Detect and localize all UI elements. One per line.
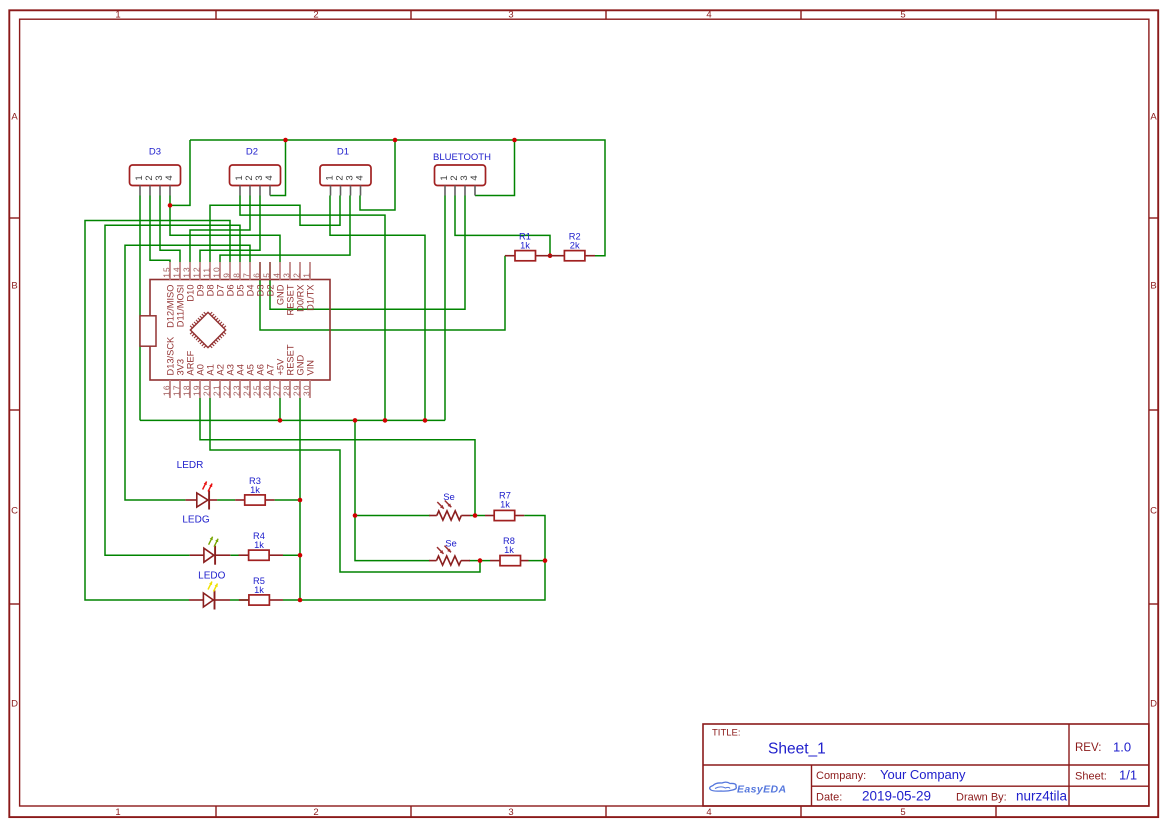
junction bus-BT [512,138,517,143]
svg-text:23: 23 [232,384,242,396]
wire D3 pin4 to node [170,196,280,263]
svg-text:5: 5 [900,10,905,21]
U1 pin 12 D9 [199,262,201,280]
junction +5V rail D2pin1 [383,418,388,423]
svg-text:BLUETOOTH: BLUETOOTH [433,152,491,163]
wire D3 pin1 down [139,196,141,421]
svg-text:28: 28 [282,384,292,396]
wire BLUETOOTH pin3 to U1 pin5 [270,196,465,310]
wire U1 pin7 to LEDR rail [125,245,250,500]
svg-text:Se: Se [445,539,457,550]
junction R5 GND [298,598,303,603]
U1 pin 4 GND [279,262,281,280]
U1 pin 2 D0/RX [299,262,301,280]
svg-text:26: 26 [262,384,272,396]
svg-text:A: A [1150,112,1157,123]
wire R3 to GND column [275,499,300,501]
U1 pin 9 D6 [229,262,231,280]
wire D3 pin2 to U1 pin15 [150,196,170,263]
svg-text:Se: Se [443,492,455,503]
junction bus-D2 [283,138,288,143]
svg-text:D7: D7 [215,285,225,297]
wire D2 pin4 to bus [270,140,286,196]
junction D3 pin4 node [168,203,173,208]
svg-text:D1: D1 [337,147,349,158]
svg-text:D: D [1150,699,1157,710]
svg-text:29: 29 [292,384,302,396]
svg-text:LEDG: LEDG [182,515,209,526]
wire LEDR to R3 segment [217,499,235,501]
wire D1 pin4 to bus [360,140,395,210]
U1 pin 28 RESET [289,380,291,398]
svg-text:13: 13 [182,266,192,278]
wire U1 pin20 A1 to Se2 node [210,398,480,572]
wire Se1 node segment [470,515,485,517]
svg-text:D0/RX: D0/RX [295,285,305,312]
resistor R3 1k [235,476,275,505]
svg-text:1/1: 1/1 [1119,768,1137,783]
svg-text:D6: D6 [225,285,235,297]
U1 pin 27 +5V [279,380,281,398]
wire R8 right segment [529,560,546,562]
wire U1 pin29 GND down [299,398,301,600]
svg-text:5: 5 [900,807,905,818]
svg-text:4: 4 [272,272,282,278]
svg-text:10: 10 [212,266,222,278]
resistor R8 1k [490,536,529,566]
svg-text:2019-05-29: 2019-05-29 [862,789,931,804]
svg-text:D10: D10 [185,285,195,302]
svg-text:D8: D8 [205,285,215,297]
U1 pin 5 D2 [269,262,271,280]
svg-text:17: 17 [172,384,182,396]
svg-text:+5V: +5V [275,358,285,376]
svg-text:Company:: Company: [816,770,866,782]
U1 pin 26 A7 [269,380,271,398]
resistor R5 1k [239,576,283,605]
svg-text:4: 4 [706,10,711,21]
svg-text:2: 2 [313,10,318,21]
svg-text:2k: 2k [570,241,580,251]
svg-text:Sheet_1: Sheet_1 [768,741,826,758]
svg-text:RESET: RESET [285,284,295,315]
svg-text:18: 18 [182,384,192,396]
sensor Se2 photoresistor [429,539,470,566]
svg-text:Your Company: Your Company [880,767,966,782]
U1 usb notch [140,316,156,346]
svg-text:8: 8 [232,272,242,278]
svg-text:12: 12 [192,266,202,278]
resistor R1 1k [505,231,550,261]
U1 pin 21 A2 [219,380,221,398]
svg-text:D1/TX: D1/TX [305,285,315,311]
U1 pin 15 D12/MISO [169,262,171,280]
svg-text:Sheet:: Sheet: [1075,771,1107,783]
U1 pin 1 D1/TX [309,262,311,280]
svg-text:LEDO: LEDO [198,570,225,581]
MCU U1 Arduino Nano [140,262,330,398]
resistor R4 1k [239,531,283,560]
wire D2 pin1 down [240,196,385,421]
wire Se1 row left [355,515,430,517]
svg-text:3V3: 3V3 [175,359,185,376]
U1 pin 7 D4 [249,262,251,280]
U1 pin 22 A3 [229,380,231,398]
svg-text:REV:: REV: [1075,742,1101,754]
svg-text:1.0: 1.0 [1113,740,1131,755]
junction +5V rail D1pin1 [423,418,428,423]
wire R7 right drop [524,516,545,561]
junction R4 GND [298,553,303,558]
wire node to GND bus riser [170,140,190,205]
wire R1 left to U1 pin6 [260,256,505,330]
junction +5V rail Se [353,418,358,423]
junction R7-R8 right node [543,558,548,563]
title block [703,724,1149,806]
wire D1 pin1 down [330,196,425,421]
svg-text:20: 20 [202,384,212,396]
svg-text:1k: 1k [504,545,514,555]
svg-text:Date:: Date: [816,791,842,803]
svg-text:TITLE:: TITLE: [712,728,741,739]
svg-text:D4: D4 [245,285,255,297]
wire GND top bus [190,140,605,256]
svg-text:A0: A0 [195,364,205,375]
U1 pin 29 GND [299,380,301,398]
svg-text:1k: 1k [254,540,264,550]
junction R1-R2 node [548,253,553,258]
wire +5V rail [140,419,445,421]
junction bus-D1 [393,138,398,143]
U1 pin 16 D13/SCK [169,380,171,398]
svg-text:VIN: VIN [305,360,315,376]
svg-text:4: 4 [706,807,711,818]
junction Se1 left [353,513,358,518]
connector D3 [130,147,181,196]
wire LEDO to R5 segment [230,599,249,601]
EasyEDA logo [710,782,737,791]
U1 pin 13 D10 [189,262,191,280]
U1 pin 18 AREF [189,380,191,398]
svg-text:nurz4tila: nurz4tila [1016,789,1068,804]
U1 pin 14 D11/MOSI [179,262,181,280]
sensor Se1 photoresistor [429,492,470,520]
svg-text:1k: 1k [520,241,530,251]
wire BLUETOOTH pin2 to R1-R2 node [455,196,550,256]
svg-text:4: 4 [469,175,480,180]
svg-text:1k: 1k [254,585,264,595]
svg-text:1: 1 [115,10,120,21]
wire R5 to Se node column [283,561,545,600]
svg-text:A7: A7 [265,364,275,375]
svg-text:A3: A3 [225,364,235,375]
U1 pin 20 A1 [209,380,211,398]
svg-text:C: C [11,506,18,517]
svg-text:1k: 1k [250,485,260,495]
svg-text:D2: D2 [246,147,258,158]
svg-text:A1: A1 [205,364,215,375]
svg-text:D12/MISO: D12/MISO [165,285,175,328]
svg-text:A2: A2 [215,364,225,375]
svg-text:A: A [11,112,18,123]
svg-text:D9: D9 [195,285,205,297]
svg-text:4: 4 [355,175,366,180]
svg-text:1k: 1k [500,500,510,510]
svg-text:2: 2 [313,807,318,818]
svg-text:LEDR: LEDR [177,460,204,471]
U1 pin 17 3V3 [179,380,181,398]
svg-text:D5: D5 [235,285,245,297]
U1 pin 24 A5 [249,380,251,398]
svg-text:1: 1 [115,807,120,818]
svg-text:A4: A4 [235,364,245,375]
svg-text:3: 3 [508,807,513,818]
U1 pin5 pin6 wire-over-stub blend [259,262,261,281]
svg-text:9: 9 [222,272,232,278]
svg-text:D2: D2 [265,285,275,297]
svg-text:22: 22 [222,384,232,396]
junction Se1-R7 node [473,513,478,518]
svg-text:EasyEDA: EasyEDA [737,784,787,796]
svg-text:16: 16 [162,384,172,396]
svg-text:27: 27 [272,384,282,396]
svg-text:11: 11 [202,267,212,278]
junction R3 GND [298,498,303,503]
connector BLUETOOTH [433,152,491,196]
U1 pin 25 A6 [259,380,261,398]
wire LEDG to R4 segment [230,554,248,556]
wire U1 pin9 to LEDO rail [85,221,230,601]
wire Se2 node segment [469,560,490,562]
svg-text:A6: A6 [255,364,265,375]
svg-text:D13/SCK: D13/SCK [165,336,175,376]
U1 pin 8 D5 [239,262,241,280]
svg-text:4: 4 [264,175,275,180]
U1 pin 30 VIN [309,380,311,398]
svg-text:D: D [11,699,18,710]
wire U1 pin19 A0 to Se1 node [200,398,475,516]
U1 pin 11 D8 [209,262,211,280]
wire D2 pin3 to U1 pin12 [200,196,260,263]
LED LEDG [182,515,230,565]
svg-text:GND: GND [295,355,305,376]
wire rail to Se rows [355,420,430,560]
U1 pin 6 D3 [259,262,261,280]
svg-text:Drawn By:: Drawn By: [956,791,1007,803]
svg-text:D11/MOSI: D11/MOSI [175,285,185,328]
wire D1 pin2 to U1 pin11 [210,196,340,263]
resistor R2 2k [550,231,595,261]
LED LEDR [177,460,217,510]
wire R4 to GND column [283,554,300,556]
U1 pin 23 A4 [239,380,241,398]
svg-text:19: 19 [192,384,202,396]
svg-text:2: 2 [292,272,302,278]
svg-text:A5: A5 [245,364,255,375]
svg-text:B: B [1150,281,1156,292]
svg-text:RESET: RESET [285,344,295,375]
svg-text:30: 30 [302,384,312,396]
wire D3 pin3 to U1 pin14 [160,196,180,263]
U1 pin 19 A0 [199,380,201,398]
svg-text:3: 3 [508,10,513,21]
svg-text:21: 21 [212,384,222,396]
wire D1 pin3 to U1 pin10 [220,196,350,263]
wire U1 pin27 +5V to rail [279,398,281,420]
U1 pin 3 RESET [289,262,291,280]
junction Se2-R8 node [478,558,483,563]
svg-text:15: 15 [162,266,172,278]
LED LEDO [189,570,230,609]
wire D2 pin2 to U1 pin13 [190,196,250,263]
svg-text:1: 1 [302,272,312,278]
connector D1 [320,147,371,196]
connector D2 [230,147,281,196]
svg-text:14: 14 [172,266,182,278]
svg-text:25: 25 [252,384,262,396]
U1 pin 10 D7 [219,262,221,280]
svg-text:D3: D3 [255,285,265,297]
svg-text:GND: GND [275,284,285,305]
svg-text:24: 24 [242,384,252,396]
svg-text:4: 4 [164,175,175,180]
wire BLUETOOTH pin1 down [444,196,446,421]
wire U1 pin8 to LEDG rail [105,225,240,555]
junction +5V rail pin27 [278,418,283,423]
svg-text:D3: D3 [149,147,161,158]
resistor R7 1k [485,491,524,521]
svg-text:B: B [11,281,17,292]
U1 chip diamond [190,312,225,347]
svg-text:C: C [1150,506,1157,517]
svg-text:3: 3 [282,272,292,278]
svg-text:7: 7 [242,272,252,278]
wire BLUETOOTH pin4 to bus [475,140,515,196]
svg-text:AREF: AREF [185,350,195,375]
